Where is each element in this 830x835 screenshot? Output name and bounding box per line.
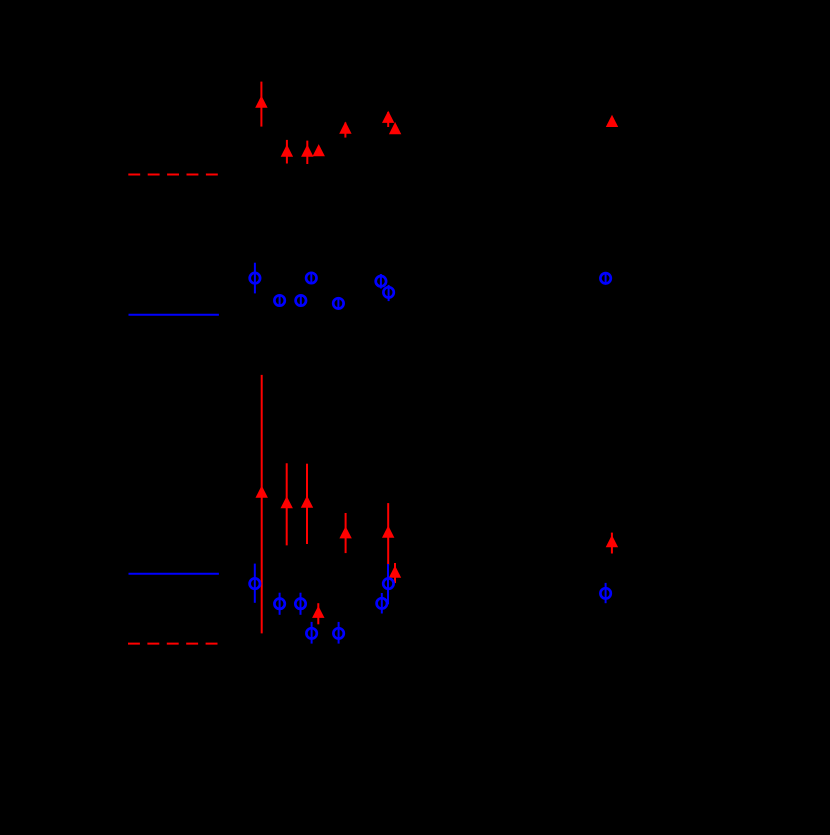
blue solid reference line (bottom) (129, 573, 219, 575)
blue solid reference line (top) (129, 314, 219, 316)
red dashed reference line (bottom) (128, 643, 218, 645)
top blue open-circle markers (250, 273, 611, 309)
bottom blue errorbars (255, 564, 606, 644)
bottom blue open-circle markers (250, 578, 611, 638)
red dashed reference line (top) (128, 174, 218, 176)
top blue errorbars (255, 263, 606, 309)
top red errorbars (261, 82, 388, 164)
bottom red triangle markers (256, 486, 619, 618)
bottom red errorbars (262, 375, 612, 634)
top red triangle markers (base width 13, height 11.25) (255, 96, 618, 157)
